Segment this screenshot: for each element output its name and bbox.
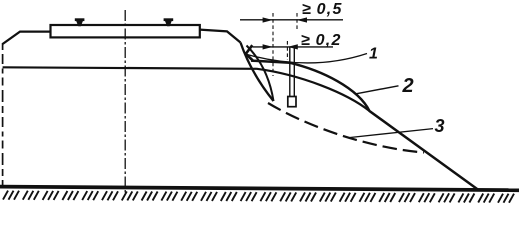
svg-text:3: 3 (435, 116, 445, 136)
arrow right 0,5 (297, 17, 307, 22)
subgrade line (3, 67, 370, 111)
leader 1 (246, 54, 367, 63)
arrow left 0,5 (263, 17, 273, 22)
svg-text:2: 2 (402, 75, 414, 97)
leader 3 (349, 129, 433, 138)
dimension line 0,5 (240, 19, 343, 21)
stake (288, 48, 296, 107)
rail right (164, 18, 174, 26)
dimension line 0,2 (253, 46, 334, 48)
right shoulder and new slope (200, 30, 241, 43)
svg-text:≥ 0,5: ≥ 0,5 (302, 1, 343, 18)
extension line x297 (296, 13, 298, 31)
old slope cut line (241, 43, 274, 102)
rail left (75, 18, 85, 26)
leader 2 (356, 86, 399, 94)
svg-text:1: 1 (369, 46, 378, 63)
extension line x287 (286, 41, 288, 60)
slip surface 3 dashed (268, 103, 424, 153)
arrow right 0,2 (288, 44, 298, 49)
ground hatching (3, 191, 514, 203)
left break line (2, 43, 4, 185)
extension line x273 (272, 13, 274, 76)
embankment crest outline (3, 32, 51, 44)
ground line (0, 187, 519, 191)
berm surface curve 2 (251, 61, 478, 190)
ballast prism (51, 25, 200, 37)
arrow left 0,2 (263, 44, 273, 49)
centerline (124, 10, 126, 194)
svg-text:≥ 0,2: ≥ 0,2 (301, 32, 342, 49)
cut sliver right curve (247, 46, 274, 102)
leader 1 arrowhead (246, 45, 253, 60)
